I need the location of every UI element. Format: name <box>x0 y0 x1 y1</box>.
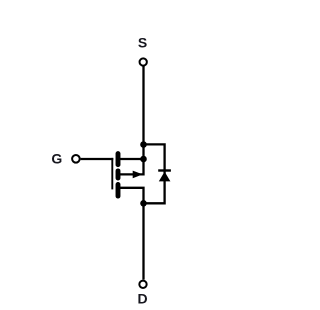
svg-text:D: D <box>137 291 147 307</box>
svg-text:S: S <box>138 35 147 51</box>
svg-text:G: G <box>51 151 62 167</box>
